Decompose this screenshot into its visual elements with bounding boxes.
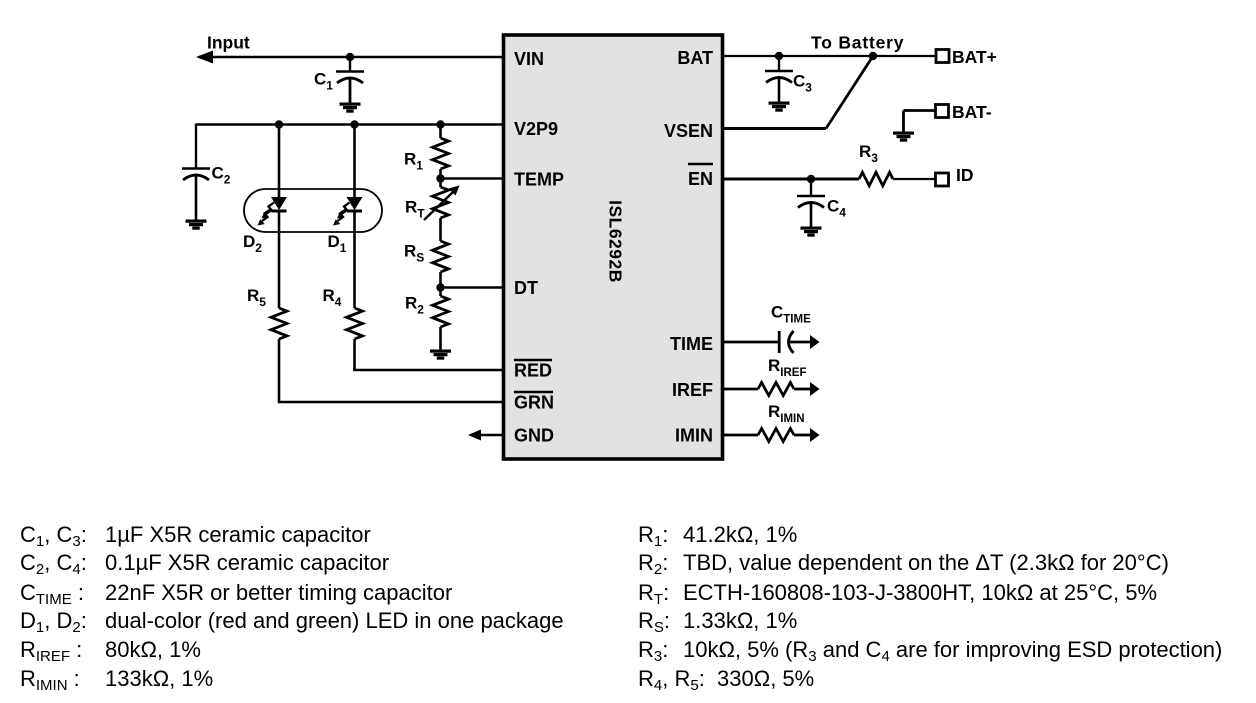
label BAT- — [952, 102, 992, 122]
wire CTIME to arrow — [790, 341, 811, 344]
resistor R3 — [859, 172, 893, 186]
svg-text:EN: EN — [688, 169, 713, 189]
svg-text:BAT: BAT — [677, 48, 713, 68]
pin label VIN — [514, 49, 544, 69]
wire VIN to Input — [199, 56, 504, 58]
label D2 — [243, 232, 262, 255]
label RIREF — [768, 356, 806, 379]
svg-text:ISL6292B: ISL6292B — [606, 200, 626, 283]
wire C2 drop — [195, 124, 197, 169]
LED D2 emission arrows — [258, 203, 275, 226]
label RT — [405, 198, 425, 221]
svg-text:RT: RT — [405, 198, 425, 221]
svg-text:VIN: VIN — [514, 49, 544, 69]
terminal BAT+ — [936, 50, 949, 63]
svg-text:TEMP: TEMP — [514, 170, 564, 190]
label RS — [404, 242, 424, 265]
wire GND stub — [478, 434, 504, 437]
svg-text:GRN: GRN — [514, 393, 554, 413]
pin label V2P9 — [514, 119, 558, 139]
LED D1 — [347, 197, 363, 213]
svg-text:RIREF: RIREF — [768, 356, 806, 379]
value note RIREF : 80kOhm, 1% — [20, 639, 201, 661]
wire DT — [441, 286, 504, 288]
Input arrow — [196, 51, 213, 64]
label R3 — [859, 142, 878, 165]
wire RIMIN to arrow — [794, 434, 810, 437]
node V2P9/D1 junction — [350, 120, 358, 128]
svg-text:D2: D2 — [243, 232, 262, 255]
pin label VSEN — [664, 121, 713, 141]
svg-text:Input: Input — [207, 33, 250, 53]
node VIN/C1 junction — [346, 53, 354, 61]
svg-text:DT: DT — [514, 278, 538, 298]
value note C2, C4: 0.1µF X5R ceramic capacitor — [20, 552, 389, 574]
IC U1 ISL6292B body — [504, 35, 723, 459]
node BAT/C3 junction — [775, 52, 783, 60]
ground BAT- — [893, 132, 914, 142]
wire D1 branch upper — [353, 125, 356, 198]
label R2 — [405, 294, 424, 317]
ground C1 — [340, 103, 361, 113]
label R4 — [323, 286, 342, 309]
capacitor C1 — [336, 57, 364, 103]
wire TEMP — [441, 177, 504, 179]
resistor R4 — [347, 308, 363, 339]
resistor R1 — [433, 138, 449, 169]
label BAT+ — [952, 47, 997, 67]
label R1 — [404, 150, 423, 173]
value note RT: ECTH-160808-103-J-3800HT, 10kOhm at 25°C, 5% — [638, 582, 1157, 604]
wire BAT to BAT+ — [723, 55, 937, 57]
LED D2 — [271, 197, 287, 213]
pin label BAT — [677, 48, 713, 68]
ground C4 — [801, 227, 822, 237]
node BAT/VSEN tap junction — [869, 52, 877, 60]
wire D1 to R4 — [353, 212, 356, 308]
svg-text:CTIME: CTIME — [771, 303, 811, 326]
node V2P9/R1 junction — [436, 120, 444, 128]
arrow IREF end — [810, 382, 820, 396]
label C4 — [827, 197, 846, 220]
svg-text:RS: RS — [404, 242, 424, 265]
svg-text:R2: R2 — [405, 294, 424, 317]
terminal ID — [936, 173, 949, 186]
pin label TEMP — [514, 170, 564, 190]
wire TIME — [723, 341, 780, 344]
arrow TIME end — [810, 335, 820, 349]
wire D2 to R5 — [278, 212, 281, 308]
wire R4 to RED — [353, 339, 356, 370]
value note R4, R5: 330Ohm, 5% — [638, 668, 814, 690]
pin label TIME — [670, 334, 713, 354]
resistor R5 — [271, 308, 287, 339]
wire BAT- to ground — [904, 111, 936, 133]
wire D2 branch upper — [278, 125, 281, 198]
label D1 — [328, 232, 347, 255]
wire RS to R2, DT node — [436, 272, 444, 296]
wire IMIN — [723, 434, 759, 437]
label C3 — [793, 72, 812, 95]
svg-text:R4: R4 — [323, 286, 342, 309]
svg-text:VSEN: VSEN — [664, 121, 713, 141]
pin label DT — [514, 278, 538, 298]
wire RED — [353, 369, 503, 372]
Input label — [207, 33, 250, 53]
capacitor C3 — [765, 56, 793, 102]
label C2 — [212, 164, 231, 187]
svg-text:To Battery: To Battery — [811, 33, 904, 53]
svg-text:IMIN: IMIN — [675, 426, 713, 446]
wire R5 to GRN — [278, 339, 281, 402]
ground C3 — [769, 102, 790, 112]
svg-text:RIMIN: RIMIN — [768, 402, 805, 425]
pin label IMIN — [675, 426, 713, 446]
pin label RED (active low) — [514, 360, 552, 381]
wire VSEN diagonal — [826, 56, 873, 129]
label CTIME — [771, 303, 811, 326]
value note R1: 41.2kOhm, 1% — [638, 524, 797, 546]
svg-text:R5: R5 — [247, 286, 266, 309]
ground R2 — [430, 350, 451, 360]
svg-text:C1: C1 — [314, 70, 333, 93]
wire R1 to RT, TEMP node — [436, 169, 444, 187]
resistor RIMIN — [758, 429, 794, 442]
svg-text:C3: C3 — [793, 72, 812, 95]
svg-text:C4: C4 — [827, 197, 846, 220]
svg-text:IREF: IREF — [672, 380, 713, 400]
thermistor RT arrow — [424, 186, 460, 221]
wire rail to R1 — [439, 125, 442, 139]
wire RIREF to arrow — [794, 388, 810, 391]
label ID — [956, 165, 974, 185]
GND arrow — [468, 430, 481, 441]
svg-text:D1: D1 — [328, 232, 347, 255]
label R5 — [247, 286, 266, 309]
wire GRN — [278, 401, 504, 404]
resistor RIREF — [758, 383, 794, 396]
terminal BAT- — [936, 105, 949, 118]
pin label EN (active low) — [688, 164, 713, 189]
wire V2P9 rail — [196, 123, 504, 126]
label C1 — [314, 70, 333, 93]
svg-text:GND: GND — [514, 426, 554, 446]
svg-text:RED: RED — [514, 361, 552, 381]
capacitor C4 — [797, 179, 825, 227]
wire R3 to ID — [893, 178, 936, 180]
svg-text:V2P9: V2P9 — [514, 119, 558, 139]
label RIMIN — [768, 402, 805, 425]
value note CTIME : 22nF X5R or better timing capacitor — [20, 582, 452, 604]
svg-text:R1: R1 — [404, 150, 423, 173]
resistor R2 — [433, 296, 449, 327]
wire EN to R3 — [723, 178, 860, 181]
value note C1, C3: 1µF X5R ceramic capacitor — [20, 524, 371, 546]
value note R3: 10kOhm, 5% (R3 and C4 are for improving ESD protection) — [638, 639, 1222, 661]
wire R2 to ground — [439, 327, 442, 350]
svg-text:C2: C2 — [212, 164, 231, 187]
svg-text:R3: R3 — [859, 142, 878, 165]
value note RIMIN : 133kOhm, 1% — [20, 668, 213, 690]
svg-text:ID: ID — [956, 165, 974, 185]
pin label IREF — [672, 380, 713, 400]
value note D1, D2: dual-color (red and green) LED in one package — [20, 610, 564, 632]
wire RT to RS — [439, 218, 442, 241]
thermistor RT — [433, 187, 449, 218]
wire VSEN — [723, 127, 827, 130]
pin label GND — [514, 426, 554, 446]
svg-text:BAT-: BAT- — [952, 102, 992, 122]
ground C2 — [186, 220, 207, 230]
value note RS: 1.33kOhm, 1% — [638, 610, 797, 632]
arrow IMIN end — [810, 428, 820, 442]
LED package oval D1/D2 — [244, 189, 382, 232]
capacitor CTIME — [779, 331, 793, 353]
pin label GRN (active low) — [514, 392, 554, 413]
capacitor C2 — [182, 169, 210, 221]
wire IREF — [723, 388, 759, 391]
svg-text:BAT+: BAT+ — [952, 47, 997, 67]
value note R2: TBD, value dependent on the DeltaT (2.3kOhm for 20°C) — [638, 552, 1169, 574]
node EN/C4 junction — [807, 175, 815, 183]
svg-text:TIME: TIME — [670, 334, 713, 354]
To Battery label — [811, 33, 904, 53]
resistor RS — [433, 241, 449, 272]
LED D1 emission arrows — [333, 203, 350, 226]
node V2P9/D2 junction — [275, 120, 283, 128]
